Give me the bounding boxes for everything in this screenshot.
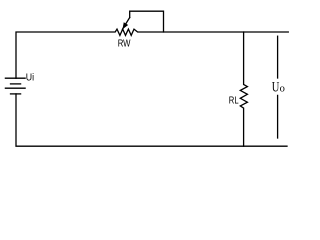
svg-text:RL: RL — [229, 96, 239, 107]
svg-text:U: U — [272, 79, 280, 95]
svg-text:o: o — [280, 83, 285, 94]
svg-text:RW: RW — [118, 39, 131, 50]
svg-text:Ui: Ui — [26, 72, 34, 84]
